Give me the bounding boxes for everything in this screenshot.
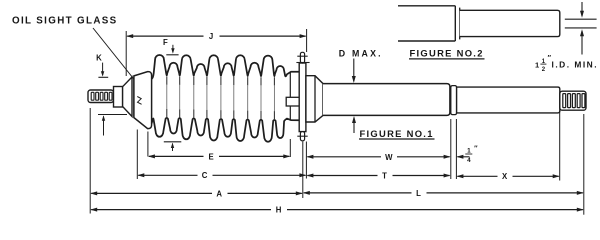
hex nut on stud — [114, 87, 123, 108]
svg-text:F: F — [163, 38, 168, 47]
extension line, collar right / X left — [455, 119, 457, 179]
D MAX arrow, bottom — [352, 116, 356, 123]
svg-text:A: A — [216, 189, 222, 198]
I.D. dimension arrows, figure 2 — [581, 2, 583, 16]
porcelain right end edge — [289, 72, 291, 120]
dimension line W — [307, 156, 381, 158]
figure 2 tube, right section — [460, 10, 560, 36]
extension line, W/T right at tube end — [450, 119, 452, 179]
dimension line J — [127, 35, 203, 37]
svg-text:2: 2 — [542, 67, 546, 73]
svg-text:E: E — [208, 152, 214, 161]
dimension line H — [91, 209, 271, 211]
porcelain shed stack, top profile — [152, 55, 300, 79]
collar ring at right end of tube — [451, 86, 457, 115]
dimension line X — [457, 175, 497, 177]
svg-text:L: L — [416, 189, 421, 198]
K arrow, top — [102, 63, 104, 76]
svg-text:X: X — [502, 172, 508, 181]
extension line, W/T/C at flange face — [305, 142, 307, 179]
mounting flange left tab — [286, 97, 299, 106]
cap step line — [133, 77, 135, 117]
flange bottom bolt — [300, 132, 304, 141]
svg-text:D MAX.: D MAX. — [339, 48, 383, 58]
flange top bolt — [300, 52, 304, 63]
svg-text:4: 4 — [467, 157, 471, 164]
svg-text:FIGURE NO.1: FIGURE NO.1 — [360, 128, 434, 139]
svg-text:I.D. MIN.: I.D. MIN. — [552, 60, 599, 70]
extension line, J left — [125, 31, 127, 76]
svg-text:H: H — [276, 206, 282, 215]
figure 2 draw tube, left section — [398, 5, 455, 7]
extension line, A/L split at flange — [302, 142, 304, 199]
dimension line C — [138, 174, 197, 176]
bell skirt of cap (oil sight glass housing) — [134, 72, 152, 129]
svg-text:″: ″ — [474, 144, 478, 153]
svg-text:FIGURE NO.2: FIGURE NO.2 — [410, 48, 484, 59]
extension line, C left — [136, 130, 138, 180]
tapered cone of cap — [123, 77, 132, 117]
extension line, X right — [559, 111, 561, 181]
D MAX arrow, top — [353, 59, 355, 82]
svg-text:OIL SIGHT GLASS: OIL SIGHT GLASS — [12, 16, 118, 27]
threaded stub, right end — [560, 91, 586, 110]
porcelain shed stack, bottom profile — [152, 118, 300, 142]
K tick and arrow, bottom — [98, 114, 127, 116]
figure 2 ferrule line — [459, 8, 461, 40]
extension line, overall left (A/H) — [89, 108, 91, 214]
dimension line T — [307, 175, 377, 177]
svg-text:C: C — [202, 171, 208, 180]
leader line from OIL SIGHT GLASS label to sight glass — [93, 28, 141, 88]
extension line, overall right (L/H) — [583, 114, 585, 215]
F arrow, top — [172, 45, 174, 52]
shed separation lines inside trunk — [166, 77, 168, 85]
svg-text:J: J — [209, 32, 214, 41]
right end cylinder — [457, 87, 560, 113]
quarter inch dimension stub — [456, 155, 463, 159]
dimension line A — [91, 192, 212, 194]
sight glass mark (squiggle) — [137, 97, 141, 105]
dimension line L — [304, 192, 412, 194]
main tube body D MAX — [323, 84, 450, 116]
threaded stud, left end — [88, 90, 114, 103]
extension line, E left — [147, 132, 149, 157]
svg-text:K: K — [96, 54, 102, 63]
svg-text:T: T — [382, 172, 387, 181]
dimension line E — [149, 155, 204, 157]
mounting flange plate — [299, 63, 306, 132]
extension line, E right — [289, 139, 291, 157]
F tick and arrow, bottom — [164, 141, 182, 143]
svg-text:1: 1 — [535, 61, 540, 70]
shoulder cone right of flange — [306, 76, 323, 122]
svg-text:1: 1 — [467, 148, 471, 155]
svg-text:W: W — [385, 153, 393, 162]
extension line, J right — [306, 29, 308, 52]
